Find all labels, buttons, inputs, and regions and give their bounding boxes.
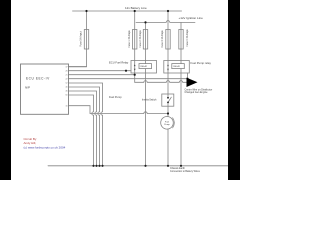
svg-text:46: 46: [66, 91, 68, 93]
svg-text:Fuel Pump: Fuel Pump: [109, 95, 122, 99]
wire battery drop to fuse 1: [134, 11, 136, 61]
svg-text:Pump: Pump: [164, 124, 170, 126]
svg-text:16: 16: [66, 105, 68, 107]
svg-text:(c) www.fordscorpio.co.uk 2004: (c) www.fordscorpio.co.uk 2004: [24, 145, 66, 149]
fuse labels rotated: [80, 29, 189, 48]
svg-text:+12v Ignition Line: +12v Ignition Line: [179, 16, 204, 20]
wire relay2 C down to inertia switch: [167, 73, 169, 94]
svg-text:Fuse 2 15 Amps: Fuse 2 15 Amps: [139, 30, 142, 48]
wire ignition line with hop over x168: [136, 21, 195, 23]
wire battery drop to fuse 3: [167, 11, 169, 61]
wire relay2 D down to earth: [180, 73, 182, 166]
svg-text:40: 40: [66, 87, 68, 89]
svg-text:Fuel Pump relay: Fuel Pump relay: [191, 61, 212, 65]
wire ECU pin1 to fuse5A: [69, 66, 87, 68]
fuel pump motor circle: [161, 117, 174, 130]
svg-text:Fuse 3 10 Amps: Fuse 3 10 Amps: [161, 30, 164, 48]
svg-text:ECU EEC-IV: ECU EEC-IV: [26, 77, 50, 81]
wire ECU pin5: [69, 83, 103, 166]
wire battery drop to fuse 5A: [69, 11, 87, 67]
svg-text:26: 26: [66, 70, 68, 72]
relay K1 contact arrows: [134, 64, 198, 87]
right black bar: [228, 0, 240, 180]
svg-text:Fuse 5 A Input: Fuse 5 A Input: [80, 31, 83, 47]
fuse F2: [143, 30, 147, 50]
relay K2 contact arrows: [167, 64, 169, 66]
ECU U1 box: [21, 64, 69, 114]
svg-text:Fuse 4 15 Amps: Fuse 4 15 Amps: [186, 29, 189, 47]
svg-text:12v Battery Line: 12v Battery Line: [125, 6, 147, 10]
wire ECU pin2 to relay1: [69, 70, 132, 72]
svg-text:22: 22: [66, 78, 68, 80]
svg-text:RELAY: RELAY: [173, 65, 180, 68]
svg-text:ECU Fuel Relay: ECU Fuel Relay: [109, 60, 129, 64]
svg-text:Andy Hill,: Andy Hill,: [24, 141, 37, 145]
wire relay1 contact B down to earth: [145, 73, 147, 166]
fuse F4: [179, 30, 183, 50]
relay K2 fuel pump relay box: [164, 61, 190, 74]
wire ECU pin9 fuel pump signal: [69, 106, 169, 114]
svg-text:Connection to Battery Wires: Connection to Battery Wires: [170, 170, 201, 173]
svg-text:Inertia Switch: Inertia Switch: [142, 98, 157, 101]
left black bar: [0, 0, 11, 180]
node junction dots: [85, 10, 188, 167]
arrow to distributor: [187, 78, 198, 87]
wire 12v battery line: [73, 10, 182, 12]
wire fuel pump to earth: [167, 129, 169, 166]
fuse F5A: [84, 30, 88, 50]
relay K1 ECU fuel relay box: [131, 61, 157, 74]
svg-text:52: 52: [66, 83, 68, 85]
credit text: [24, 137, 66, 150]
svg-text:21: 21: [66, 74, 68, 76]
svg-text:Changed Gen Engine: Changed Gen Engine: [185, 91, 209, 94]
fuse F1: [133, 30, 137, 50]
ECU pin numbers: [66, 66, 68, 107]
svg-text:RELAY: RELAY: [141, 65, 148, 68]
svg-text:60: 60: [66, 95, 68, 97]
svg-text:N/P: N/P: [25, 85, 30, 89]
wire ECU pin4 to relay2 coil: [69, 73, 188, 79]
wire chassis earth line: [48, 165, 229, 167]
wire ECU pin6: [69, 87, 100, 166]
wire coil feed line to distributor with hops: [135, 81, 187, 83]
wire ignition drop to fuse 2: [145, 22, 147, 60]
wire ignition drop to fuse 4: [180, 22, 182, 60]
inertia switch box: [162, 94, 174, 106]
wire ECU pin8: [69, 95, 94, 166]
wire inertia switch to fuel pump: [167, 106, 169, 116]
wire ECU pin7: [69, 91, 97, 166]
svg-text:Fuse 1 15 Amps: Fuse 1 15 Amps: [128, 30, 131, 48]
wire ECU pin3 to coil junction: [69, 73, 135, 82]
fuse F3: [166, 30, 170, 50]
svg-text:37: 37: [66, 66, 68, 68]
